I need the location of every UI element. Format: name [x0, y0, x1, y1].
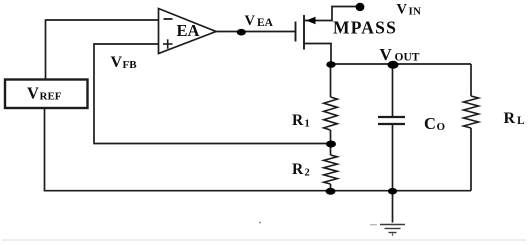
svg-text:R: R [292, 112, 304, 129]
svg-text:FB: FB [123, 59, 138, 71]
svg-text:C: C [424, 114, 436, 133]
svg-text:R: R [292, 161, 304, 178]
svg-text:EA: EA [257, 17, 274, 29]
svg-text:EA: EA [177, 21, 200, 40]
svg-text:1: 1 [305, 119, 310, 130]
svg-text:V: V [245, 13, 256, 29]
svg-text:V: V [380, 45, 393, 64]
svg-text:V: V [397, 1, 408, 17]
svg-text:V: V [27, 84, 39, 103]
svg-text:V: V [111, 54, 123, 71]
svg-text:R: R [504, 110, 516, 127]
svg-text:REF: REF [40, 91, 62, 103]
svg-text:OUT: OUT [395, 52, 420, 64]
svg-text:L: L [517, 115, 525, 127]
svg-text:2: 2 [305, 168, 310, 179]
svg-text:MPASS: MPASS [333, 18, 397, 38]
svg-text:IN: IN [409, 6, 422, 18]
svg-text:O: O [437, 121, 446, 133]
